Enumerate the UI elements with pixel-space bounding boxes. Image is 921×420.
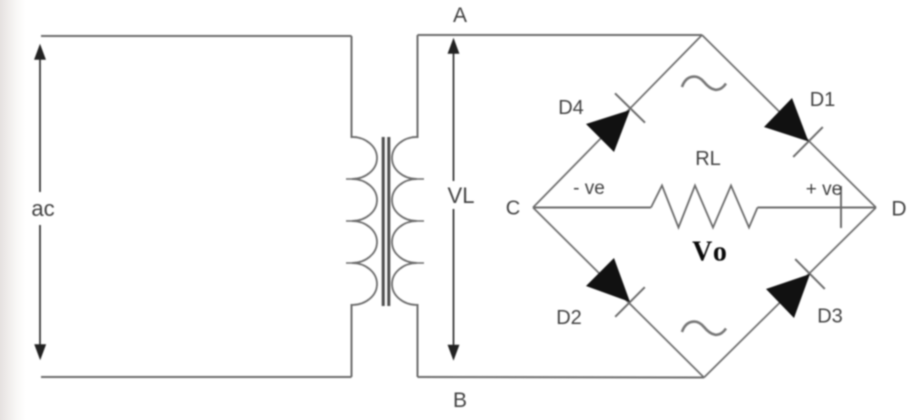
diode D1 cathode bar bbox=[793, 127, 823, 157]
wire node A top bbox=[418, 34, 703, 36]
wire resistor to D bbox=[758, 207, 877, 209]
svg-text:VL: VL bbox=[448, 183, 475, 208]
svg-text:Vo: Vo bbox=[692, 237, 730, 268]
diode D2 triangle bbox=[586, 258, 630, 302]
svg-text:D: D bbox=[891, 198, 906, 221]
resistor RL zigzag bbox=[651, 186, 758, 228]
wire primary vertical top bbox=[351, 36, 353, 138]
wire bridge edge top to C bbox=[533, 35, 702, 208]
diode D3 cathode bar bbox=[795, 259, 825, 289]
diode D1 triangle bbox=[764, 98, 809, 142]
transformer T1 secondary winding bbox=[392, 137, 417, 305]
transformer T1 primary winding bbox=[352, 137, 377, 305]
diode D4 cathode bar bbox=[615, 93, 645, 122]
transformer T1 core line left bbox=[382, 137, 385, 306]
svg-text:D3: D3 bbox=[817, 306, 843, 328]
wire secondary vertical bottom bbox=[417, 304, 419, 377]
transformer T1 primary winding cusp ticks bbox=[346, 137, 357, 263]
svg-text:D1: D1 bbox=[810, 89, 836, 111]
ac sine tilde bottom bbox=[682, 322, 726, 335]
wire bottom-left (primary bottom) bbox=[41, 376, 352, 378]
ac sine tilde top bbox=[682, 77, 726, 90]
svg-text:D4: D4 bbox=[558, 97, 584, 119]
wire bridge edge D to bottom bbox=[704, 208, 876, 378]
svg-text:C: C bbox=[506, 198, 520, 220]
VL measurement arrow bbox=[453, 50, 455, 181]
svg-text:D2: D2 bbox=[556, 307, 582, 329]
wire node B bottom bbox=[418, 376, 705, 379]
wire top-left (primary top) bbox=[41, 35, 352, 37]
svg-text:+ ve: + ve bbox=[806, 179, 842, 200]
polarity tick bar near D bbox=[840, 186, 842, 228]
svg-text:RL: RL bbox=[695, 148, 721, 170]
svg-text:ac: ac bbox=[31, 196, 54, 221]
wire bridge edge C to bottom bbox=[533, 208, 704, 378]
ac source measurement arrow bbox=[39, 56, 41, 192]
wire bridge edge top to D bbox=[702, 35, 876, 208]
svg-text:B: B bbox=[453, 389, 467, 412]
wire primary vertical bottom bbox=[351, 304, 353, 377]
diode D4 triangle bbox=[586, 110, 630, 152]
transformer T1 secondary winding cusp ticks bbox=[412, 137, 424, 263]
wire C to resistor bbox=[533, 207, 651, 209]
svg-text:A: A bbox=[453, 4, 467, 27]
svg-text:- ve: - ve bbox=[573, 178, 605, 199]
diode D2 cathode bar bbox=[615, 287, 645, 317]
transformer T1 core line right bbox=[387, 137, 390, 306]
wire secondary vertical top bbox=[417, 35, 419, 138]
diode D3 triangle bbox=[766, 274, 810, 318]
